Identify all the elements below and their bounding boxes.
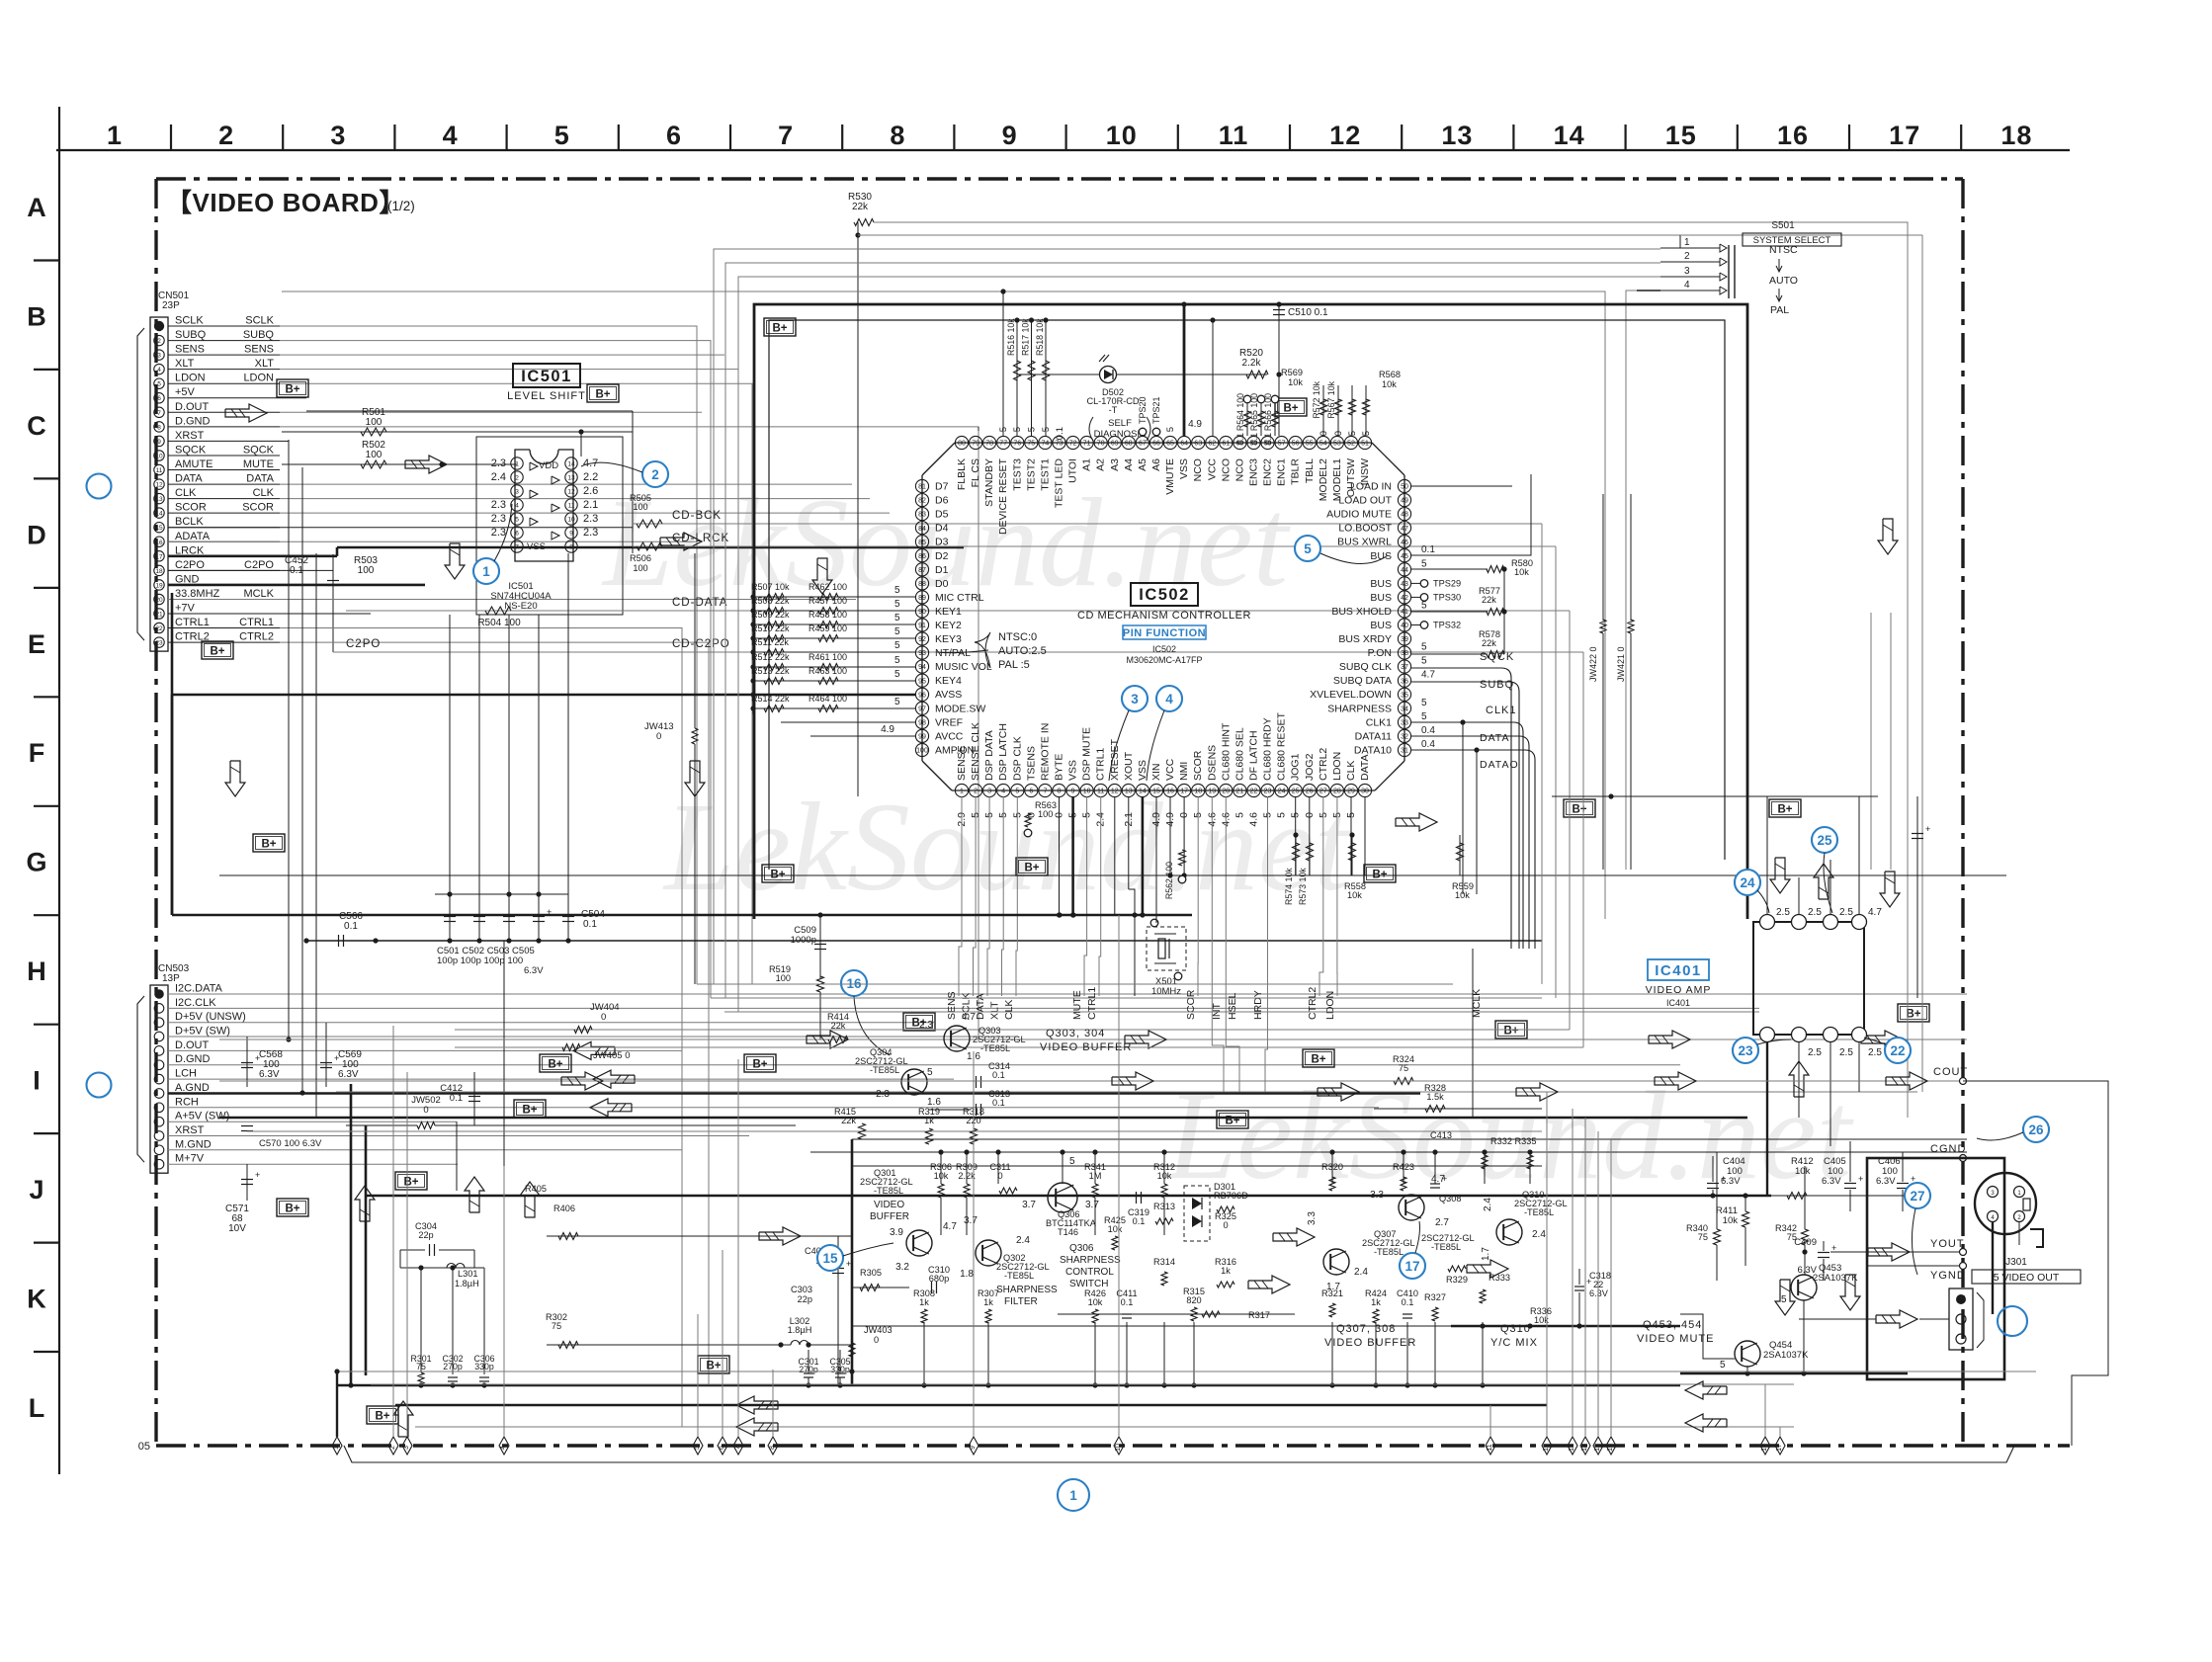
svg-text:2.3: 2.3 <box>919 1020 933 1031</box>
test point TPS20 <box>1139 428 1147 436</box>
svg-text:0.4: 0.4 <box>1421 739 1435 750</box>
svg-text:95: 95 <box>918 678 926 685</box>
svg-text:12: 12 <box>567 489 575 496</box>
svg-text:ENC1: ENC1 <box>1276 458 1288 486</box>
svg-text:16: 16 <box>1166 789 1174 795</box>
CN501 pin 7 D.OUT <box>154 407 164 417</box>
svg-text:21: 21 <box>1236 789 1244 795</box>
sheet connector diamond 15 <box>1593 1437 1603 1454</box>
wire pin77 up <box>1002 291 1004 436</box>
resistor R509 <box>753 623 915 625</box>
CN501 pin 6 +5V <box>154 393 164 403</box>
svg-text:CGND: CGND <box>1930 1143 1966 1155</box>
CN501 pin 4 XLT <box>154 364 164 374</box>
sheet connector diamond 13 <box>1568 1437 1577 1454</box>
LED D502 <box>1018 374 1099 375</box>
svg-text:S501: S501 <box>1771 220 1795 231</box>
sheet connector diamond 9 <box>969 1437 978 1454</box>
svg-text:18: 18 <box>2000 121 2032 150</box>
wire vertical heavy left 2 <box>365 1125 368 1375</box>
svg-text:0: 0 <box>656 731 661 742</box>
svg-text:10MHz: 10MHz <box>1151 986 1181 997</box>
svg-text:SQCK: SQCK <box>175 445 207 457</box>
IC502 pin 51 INSW <box>1358 436 1371 449</box>
svg-text:IC501: IC501 <box>521 368 572 385</box>
svg-text:A3: A3 <box>1109 458 1121 471</box>
IC401 bottom pin 2 <box>1792 1028 1807 1042</box>
svg-text:FLBLK: FLBLK <box>956 458 968 490</box>
svg-text:B+: B+ <box>285 384 299 396</box>
svg-text:90: 90 <box>918 609 926 616</box>
svg-text:5: 5 <box>894 626 900 637</box>
svg-text:DATA10: DATA10 <box>1354 745 1392 757</box>
svg-text:C2PO: C2PO <box>175 559 205 571</box>
svg-text:5: 5 <box>894 599 900 610</box>
nested bus wire 3 <box>738 277 1660 1012</box>
svg-text:TPS30: TPS30 <box>1433 592 1461 602</box>
B+ supply label <box>253 834 285 852</box>
svg-text:SENSE: SENSE <box>956 745 968 781</box>
connector CN501 body <box>150 317 168 651</box>
IC502 pin 66 A6 <box>1149 436 1162 449</box>
svg-text:56: 56 <box>1292 441 1300 448</box>
svg-text:2.3: 2.3 <box>491 457 506 469</box>
wire block inner bus 2 <box>852 1165 1542 1167</box>
IC502 pin 77 DEVICE RESET <box>997 436 1010 449</box>
svg-text:26: 26 <box>2028 1122 2044 1137</box>
svg-text:4.7: 4.7 <box>943 1221 957 1232</box>
svg-text:C: C <box>27 411 46 441</box>
svg-text:4: 4 <box>157 367 161 374</box>
nested bus wire 2 <box>725 263 1660 998</box>
svg-text:MODEL2: MODEL2 <box>1318 458 1329 501</box>
svg-text:52: 52 <box>1347 441 1355 448</box>
svg-text:DSP DATA: DSP DATA <box>983 730 995 781</box>
svg-text:VCC: VCC <box>1206 458 1218 481</box>
svg-text:6: 6 <box>515 531 519 538</box>
wire row H bus 2 <box>711 997 1542 999</box>
svg-text:MUTE: MUTE <box>1071 990 1083 1020</box>
B+ supply label <box>1898 1004 1929 1022</box>
svg-text:2: 2 <box>1684 251 1690 262</box>
circled ref 26 <box>2023 1117 2049 1142</box>
CN503 pin 13 M+7V <box>154 1159 164 1169</box>
svg-text:53: 53 <box>1333 441 1341 448</box>
block bottom heavy bus <box>337 1384 1680 1387</box>
IC501 pin 7 <box>511 540 523 552</box>
svg-text:1: 1 <box>333 1446 340 1450</box>
svg-text:PIN FUNCTION: PIN FUNCTION <box>1123 627 1206 639</box>
svg-text:MUSIC VOL: MUSIC VOL <box>935 661 992 673</box>
svg-text:4.7: 4.7 <box>1868 907 1882 918</box>
wire arrow row I bus 2 <box>1318 1083 1359 1101</box>
resistor R573 <box>1307 843 1314 861</box>
svg-text:0.1: 0.1 <box>1402 1297 1414 1307</box>
svg-text:R507 10k: R507 10k <box>751 582 790 592</box>
svg-text:A5: A5 <box>1137 458 1149 471</box>
svg-text:DSENS: DSENS <box>1206 745 1218 781</box>
CN501 pin 19 GND <box>154 580 164 590</box>
svg-text:4: 4 <box>1001 789 1005 795</box>
svg-text:SENS: SENS <box>175 344 205 356</box>
svg-text:2.3: 2.3 <box>583 527 598 539</box>
svg-text:CLK: CLK <box>175 487 197 499</box>
IC502 pin 76 TEST3 <box>1011 436 1024 449</box>
svg-text:LOAD IN: LOAD IN <box>1350 481 1392 493</box>
svg-text:B+: B+ <box>752 1059 767 1071</box>
svg-text:5: 5 <box>554 121 570 150</box>
IC502 pin 14 VSS <box>1136 784 1149 796</box>
svg-text:16: 16 <box>1777 121 1809 150</box>
svg-text:55: 55 <box>1306 441 1314 448</box>
svg-text:CTRL1: CTRL1 <box>1086 987 1098 1020</box>
heavy ground bus row G <box>172 914 1192 917</box>
svg-text:L301: L301 <box>458 1269 477 1279</box>
svg-text:65: 65 <box>1166 441 1174 448</box>
svg-text:TEST LED: TEST LED <box>1054 458 1065 508</box>
sheet connector diamond 7 <box>733 1437 743 1454</box>
IC401 pin wires down <box>1766 1041 1768 1196</box>
svg-text:1k: 1k <box>919 1297 929 1307</box>
svg-text:DIAGNOSIS: DIAGNOSIS <box>1094 429 1147 440</box>
svg-text:C413: C413 <box>1430 1130 1452 1140</box>
svg-text:C409: C409 <box>1794 1237 1817 1248</box>
wire CD-LRCK drop right <box>1555 546 1557 998</box>
svg-text:SHARPNESS: SHARPNESS <box>996 1285 1058 1295</box>
svg-text:79: 79 <box>972 441 979 448</box>
wire DATA run <box>280 483 852 485</box>
svg-text:0.1: 0.1 <box>1421 544 1435 555</box>
CN501 pin 1 SCLK <box>154 321 164 331</box>
svg-text:99: 99 <box>918 734 926 741</box>
wire 33.8MHZ run <box>168 599 856 601</box>
svg-text:KEY2: KEY2 <box>935 620 962 631</box>
svg-text:5: 5 <box>1347 431 1358 436</box>
svg-text:24: 24 <box>1740 875 1755 890</box>
svg-text:75: 75 <box>1027 441 1035 448</box>
svg-text:B+: B+ <box>595 389 610 401</box>
svg-text:75: 75 <box>1399 1063 1408 1073</box>
resistor R559 <box>1457 843 1464 861</box>
svg-text:28: 28 <box>1333 789 1341 795</box>
svg-text:R568: R568 <box>1379 370 1401 379</box>
IC501 inverter symbol <box>552 532 559 540</box>
svg-text:3: 3 <box>515 489 519 496</box>
svg-text:78: 78 <box>985 441 993 448</box>
svg-text:R510 22k: R510 22k <box>751 623 790 633</box>
IC501 pin 12 <box>565 485 577 497</box>
IC502 pin 12 XRESET <box>1108 784 1121 796</box>
svg-text:VIDEO: VIDEO <box>874 1200 904 1210</box>
resistors R569 R572 R567 R568 <box>1322 385 1324 436</box>
svg-text:BUFFER: BUFFER <box>870 1211 909 1222</box>
circled ref 15 <box>817 1245 843 1271</box>
svg-text:D+5V (SW): D+5V (SW) <box>175 1026 230 1038</box>
svg-text:UTOI: UTOI <box>1067 458 1079 483</box>
wire AVSS heavy <box>172 694 915 697</box>
svg-text:C510 0.1: C510 0.1 <box>1288 307 1328 318</box>
svg-text:2.5: 2.5 <box>1776 907 1790 918</box>
svg-text:22k: 22k <box>831 1021 846 1031</box>
CN503 pin 11 XRST <box>154 1131 164 1141</box>
svg-text:ADATA: ADATA <box>175 531 211 542</box>
B+ supply label <box>762 865 794 882</box>
IC502 pin 30 DATA <box>1358 784 1371 796</box>
wire IC502 pin 4 drop <box>1002 796 1004 996</box>
svg-text:4.7: 4.7 <box>1421 670 1435 681</box>
resistor R462 <box>818 594 838 601</box>
svg-text:BYTE: BYTE <box>1054 754 1065 781</box>
B+ supply label <box>514 1100 546 1118</box>
svg-text:JW422 0: JW422 0 <box>1588 646 1598 682</box>
svg-text:17: 17 <box>155 553 163 560</box>
arrows down near C409 <box>1775 1280 1795 1315</box>
B+ supply label <box>698 1356 729 1373</box>
svg-text:KEY1: KEY1 <box>935 606 962 618</box>
arrows on bottom buses <box>736 1396 778 1414</box>
IC502 pin 16 VCC <box>1163 784 1176 796</box>
wire B+ to VDD <box>306 410 633 412</box>
IC502 pin 89 MIC CTRL <box>915 591 928 604</box>
svg-text:10k: 10k <box>1157 1171 1172 1181</box>
svg-text:4.7: 4.7 <box>962 1012 976 1023</box>
transistor Q301 <box>906 1230 932 1256</box>
svg-text:14: 14 <box>1581 1444 1588 1452</box>
PIN FUNCTION blue box <box>1123 625 1206 639</box>
svg-text:E: E <box>28 629 45 659</box>
IC401 top pin 2 <box>1792 915 1807 930</box>
resistor R580 <box>1411 568 1488 570</box>
svg-text:HSEL: HSEL <box>1227 992 1238 1020</box>
wire row I bus 2 <box>336 1091 1917 1093</box>
wire COUT <box>219 1080 1963 1082</box>
svg-text:0: 0 <box>423 1105 428 1116</box>
svg-text:TPS32: TPS32 <box>1433 621 1461 630</box>
IC502 pin 68 A4 <box>1122 436 1135 449</box>
svg-text:DATA11: DATA11 <box>1355 730 1393 742</box>
capacitor C569 <box>325 1023 327 1087</box>
IC502 pin 44 <box>1398 563 1410 576</box>
svg-text:11: 11 <box>568 503 575 510</box>
svg-text:33: 33 <box>1401 720 1408 727</box>
svg-text:22p: 22p <box>798 1294 812 1304</box>
svg-text:85: 85 <box>918 540 926 546</box>
svg-text:84: 84 <box>918 526 926 533</box>
switch S501 throw 3 <box>1660 276 1720 278</box>
svg-text:10k: 10k <box>1088 1297 1103 1307</box>
transistor Q453 <box>1791 1275 1817 1300</box>
svg-text:45: 45 <box>1401 553 1408 560</box>
sheet connector diamond 10 <box>1114 1437 1124 1454</box>
resistors R564 R565 R566 <box>1246 403 1248 436</box>
resistor R512 <box>753 666 915 668</box>
svg-text:46: 46 <box>1401 540 1408 546</box>
svg-text:R511 22k: R511 22k <box>751 637 789 647</box>
IC401 top pin 3 <box>1824 915 1838 930</box>
svg-text:1.8: 1.8 <box>960 1269 974 1280</box>
CN501 pin 22 CTRL1 <box>154 623 164 632</box>
svg-text:MODE.SW: MODE.SW <box>935 703 985 714</box>
svg-text:3: 3 <box>987 789 991 795</box>
CN501 pin 18 C2PO <box>154 565 164 575</box>
IC501 pin 4 <box>511 499 523 511</box>
IC502 pin 50 LOAD IN <box>1398 479 1410 492</box>
wire arrows on row I bus <box>807 1031 848 1048</box>
switch S501 throw 1 <box>1660 247 1720 249</box>
wire SCOR run <box>280 512 890 514</box>
svg-text:10k: 10k <box>1455 890 1470 900</box>
circled ref 27 <box>1905 1183 1930 1208</box>
svg-text:TEST1: TEST1 <box>1039 458 1051 491</box>
sheet connector diamond 12 <box>1542 1437 1552 1454</box>
svg-text:18: 18 <box>155 568 163 575</box>
svg-text:5: 5 <box>894 640 900 651</box>
svg-text:97: 97 <box>918 706 926 712</box>
svg-text:5: 5 <box>927 1067 933 1078</box>
vertical x990 drop <box>978 427 979 431</box>
wire to Q301 with arrow <box>547 1235 852 1237</box>
svg-text:B+: B+ <box>1572 804 1586 816</box>
svg-text:1k: 1k <box>924 1116 934 1125</box>
svg-text:22k: 22k <box>852 202 869 212</box>
svg-text:5: 5 <box>515 517 519 524</box>
B+ supply label <box>1303 1049 1334 1067</box>
svg-text:JW403: JW403 <box>864 1325 893 1335</box>
IC502 pin 65 VMUTE <box>1163 436 1176 449</box>
svg-text:-TE85L: -TE85L <box>1004 1271 1034 1281</box>
CN501 pin 21 +7V <box>154 609 164 619</box>
svg-text:LOAD OUT: LOAD OUT <box>1338 495 1392 507</box>
svg-text:I2C.DATA: I2C.DATA <box>175 983 223 995</box>
svg-text:C2PO: C2PO <box>346 638 381 650</box>
svg-text:+: + <box>1925 824 1930 834</box>
svg-text:6: 6 <box>157 395 161 402</box>
B+ supply label <box>1564 799 1595 817</box>
sheet connector diamond 4 <box>499 1437 509 1454</box>
wire block inner bus 3 <box>852 1325 1451 1327</box>
svg-text:39: 39 <box>1401 636 1408 643</box>
svg-text:6: 6 <box>1029 789 1033 795</box>
heavy B+ bus inner <box>769 320 1725 870</box>
svg-text:AMUTE: AMUTE <box>175 458 213 470</box>
IC501 designator box <box>513 364 580 387</box>
svg-text:NCO: NCO <box>1192 458 1204 481</box>
svg-text:5: 5 <box>894 655 900 666</box>
svg-text:+: + <box>846 1259 851 1269</box>
CN503 pin 12 M.GND <box>154 1145 164 1155</box>
svg-text:12: 12 <box>1329 121 1361 150</box>
wire vertical JW413 <box>694 553 696 728</box>
svg-text:B+: B+ <box>1503 1026 1518 1038</box>
svg-text:XLT: XLT <box>255 358 275 370</box>
svg-text:DSP LATCH: DSP LATCH <box>997 723 1009 781</box>
svg-text:30: 30 <box>1361 789 1369 795</box>
svg-text:G: G <box>26 848 46 877</box>
svg-text:100: 100 <box>366 417 383 428</box>
svg-text:ENC2: ENC2 <box>1262 458 1274 486</box>
IC502 pin 75 TEST2 <box>1025 436 1038 449</box>
svg-text:B+: B+ <box>548 1059 562 1071</box>
svg-text:BUS: BUS <box>1370 550 1392 562</box>
svg-text:D.OUT: D.OUT <box>175 1039 210 1051</box>
svg-text:+5V: +5V <box>175 386 196 398</box>
svg-text:93: 93 <box>918 650 926 657</box>
IC502 pin 6 TSENS <box>1025 784 1038 796</box>
svg-text:10k: 10k <box>1347 890 1362 900</box>
svg-text:2: 2 <box>218 121 234 150</box>
svg-text:NS-E20: NS-E20 <box>504 601 537 612</box>
svg-text:21: 21 <box>155 612 163 619</box>
svg-text:I: I <box>33 1066 41 1096</box>
CN501 pin 2 SUBQ <box>154 335 164 345</box>
svg-text:92: 92 <box>918 636 926 643</box>
IC502 pin 39 BUS XRDY <box>1398 632 1410 645</box>
switch S501 throw 2 <box>1660 261 1720 263</box>
connector J301 S-video jack <box>1975 1173 2036 1234</box>
svg-text:2.7: 2.7 <box>1435 1217 1449 1228</box>
wire YOUT <box>1830 1251 1963 1253</box>
svg-text:27: 27 <box>1910 1189 1924 1204</box>
IC401 top pin 4 <box>1852 915 1867 930</box>
svg-text:70: 70 <box>1097 441 1105 448</box>
svg-text:3: 3 <box>403 1446 410 1450</box>
connector CN503 body <box>150 985 168 1173</box>
svg-text:R566 100: R566 100 <box>1263 393 1273 431</box>
wires around L301 C304 network <box>399 1250 401 1268</box>
wire arrow right of block <box>1467 1260 1508 1278</box>
svg-text:0: 0 <box>1319 431 1329 436</box>
arrow down on JW413 wire <box>685 761 705 796</box>
svg-text:B+: B+ <box>285 1204 299 1215</box>
svg-text:DEVICE RESET: DEVICE RESET <box>997 457 1009 535</box>
IC502 pin 10 DSP MUTE <box>1080 784 1093 796</box>
svg-text:40: 40 <box>1401 623 1408 629</box>
IC502 pin 60 NCO <box>1234 436 1246 449</box>
IC502 pin 18 SCOR <box>1192 784 1205 796</box>
nested bus wire 4 <box>282 291 1605 919</box>
svg-text:10k: 10k <box>1795 1166 1811 1177</box>
svg-text:R516 10k: R516 10k <box>1006 318 1016 356</box>
wire verticals from IC501 down to capacitor bank <box>449 615 451 894</box>
svg-text:47: 47 <box>1401 526 1408 533</box>
wire CTRL2 run <box>280 642 709 1384</box>
IC502 pin 71 A1 <box>1080 436 1093 449</box>
svg-text:80: 80 <box>958 441 966 448</box>
svg-text:2.1: 2.1 <box>583 499 598 511</box>
IC502 pin 52 OUTSW <box>1344 436 1357 449</box>
svg-text:1: 1 <box>1069 1488 1077 1503</box>
svg-text:17: 17 <box>1776 1444 1783 1452</box>
svg-text:75: 75 <box>552 1321 561 1331</box>
svg-text:0.1: 0.1 <box>1121 1297 1134 1307</box>
svg-text:13: 13 <box>1441 121 1473 150</box>
board boundary dash-dot top edge <box>156 177 1963 180</box>
svg-text:100: 100 <box>358 565 375 576</box>
svg-text:D5: D5 <box>935 509 949 521</box>
svg-text:BCLK: BCLK <box>175 516 204 528</box>
svg-text:NTSC:0: NTSC:0 <box>998 631 1037 643</box>
wire BCLK run <box>168 527 633 529</box>
svg-text:87: 87 <box>918 567 926 574</box>
wire IC502 pin 1 drop <box>959 796 962 996</box>
svg-text:83: 83 <box>918 512 926 519</box>
IC502 pin 83 D5 <box>915 508 928 521</box>
wire CLK1 right <box>1411 722 1523 949</box>
svg-text:YOUT: YOUT <box>1930 1238 1965 1250</box>
IC502 pin 90 KEY1 <box>915 605 928 618</box>
svg-text:5: 5 <box>1421 601 1427 612</box>
svg-text:57: 57 <box>1278 441 1286 448</box>
